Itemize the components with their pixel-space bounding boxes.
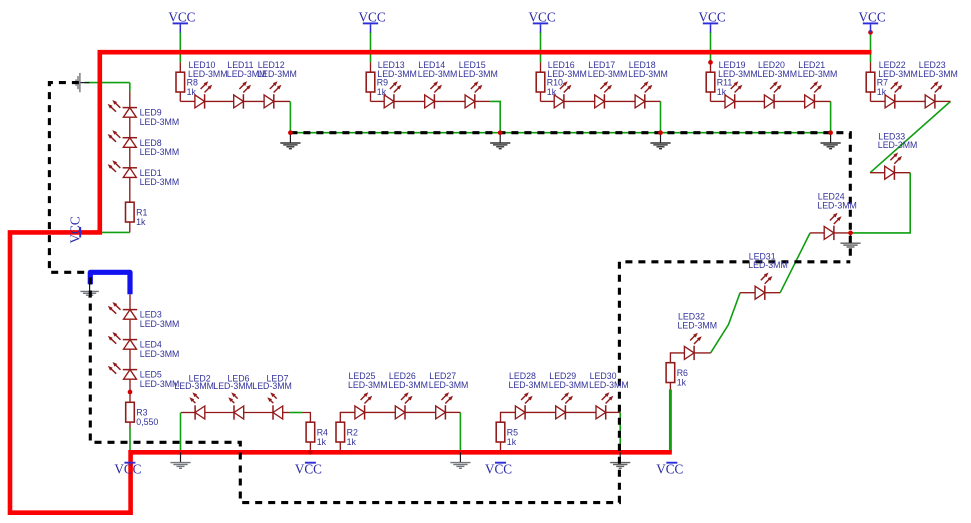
svg-text:VCC: VCC (656, 461, 683, 476)
svg-text:LED-3MM: LED-3MM (918, 69, 958, 79)
svg-text:LED-3MM: LED-3MM (348, 380, 388, 390)
svg-text:VCC: VCC (168, 10, 195, 25)
svg-text:LED-3MM: LED-3MM (140, 319, 180, 329)
svg-text:VCC: VCC (114, 461, 141, 476)
svg-text:1k: 1k (877, 87, 887, 97)
svg-text:VCC: VCC (295, 461, 322, 476)
svg-text:LED-3MM: LED-3MM (140, 349, 180, 359)
svg-text:VCC: VCC (67, 216, 82, 243)
svg-text:LED-3MM: LED-3MM (718, 69, 758, 79)
svg-text:LED-3MM: LED-3MM (252, 381, 292, 391)
svg-text:LED-3MM: LED-3MM (589, 380, 629, 390)
svg-text:1k: 1k (136, 217, 146, 227)
svg-text:LED-3MM: LED-3MM (547, 69, 587, 79)
svg-text:LED-3MM: LED-3MM (878, 140, 918, 150)
svg-text:LED-3MM: LED-3MM (377, 69, 417, 79)
svg-text:LED-3MM: LED-3MM (213, 381, 253, 391)
svg-text:0,550: 0,550 (136, 417, 158, 427)
svg-text:LED-3MM: LED-3MM (678, 320, 718, 330)
svg-text:LED-3MM: LED-3MM (878, 69, 918, 79)
svg-text:VCC: VCC (359, 10, 386, 25)
svg-text:LED-3MM: LED-3MM (429, 380, 469, 390)
svg-text:LED-3MM: LED-3MM (140, 147, 180, 157)
svg-text:LED-3MM: LED-3MM (418, 69, 458, 79)
svg-text:VCC: VCC (529, 10, 556, 25)
svg-text:LED-3MM: LED-3MM (388, 380, 428, 390)
svg-text:1k: 1k (547, 87, 557, 97)
svg-text:VCC: VCC (699, 10, 726, 25)
svg-text:1k: 1k (377, 87, 387, 97)
svg-text:LED-3MM: LED-3MM (458, 69, 498, 79)
svg-text:LED-3MM: LED-3MM (140, 117, 180, 127)
svg-text:LED-3MM: LED-3MM (140, 177, 180, 187)
svg-text:VCC: VCC (859, 10, 886, 25)
svg-text:LED-3MM: LED-3MM (588, 69, 628, 79)
svg-text:LED-3MM: LED-3MM (817, 200, 857, 210)
svg-text:1k: 1k (507, 437, 517, 447)
svg-text:1k: 1k (677, 377, 687, 387)
svg-text:LED-3MM: LED-3MM (257, 69, 297, 79)
svg-text:LED-3MM: LED-3MM (748, 260, 788, 270)
svg-text:LED-3MM: LED-3MM (174, 381, 214, 391)
svg-text:LED-3MM: LED-3MM (549, 380, 589, 390)
svg-text:1k: 1k (717, 87, 727, 97)
svg-text:LED-3MM: LED-3MM (188, 69, 228, 79)
svg-text:1k: 1k (317, 437, 327, 447)
svg-text:LED-3MM: LED-3MM (628, 69, 668, 79)
svg-text:LED-3MM: LED-3MM (758, 69, 798, 79)
svg-text:1k: 1k (347, 437, 357, 447)
svg-text:1k: 1k (187, 87, 197, 97)
svg-text:LED-3MM: LED-3MM (798, 69, 838, 79)
svg-text:VCC: VCC (485, 461, 512, 476)
svg-text:LED-3MM: LED-3MM (509, 380, 549, 390)
